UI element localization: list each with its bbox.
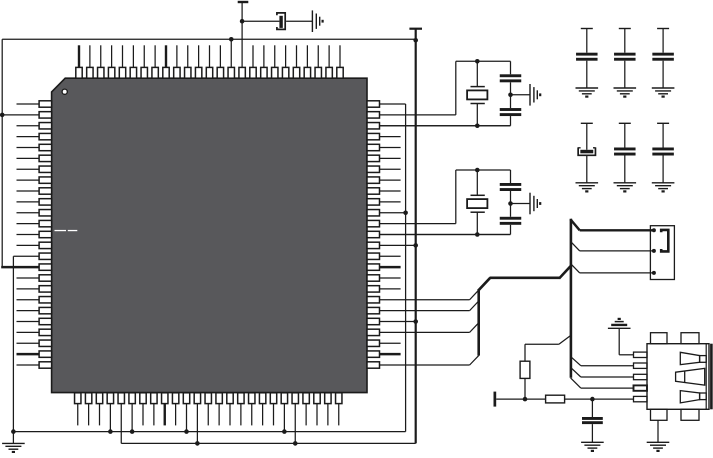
U1 left pins (25) [39,101,52,368]
terminal TP1 (supply tap bar) [494,392,497,407]
X1 mounting tabs bottom [651,409,700,420]
X1 mounting tabs top [651,333,700,344]
wire: GND drop from left pin to bottom rail [12,256,14,431]
wire: bus to USB GND pin [571,378,634,388]
capacitor Q2 load cap bottom [500,204,522,235]
wire: Q1 bottom rail to load caps [379,125,511,127]
ground (rotated) at Q1 caps [530,84,540,106]
SV1 polarity bracket [661,230,668,252]
node: rail1 junction dots [108,429,287,434]
fuse F1 [546,395,565,403]
U1 right pins (25) [367,101,380,368]
U1 label dashes [55,230,78,231]
wire: F1 to USB pin [565,398,634,400]
wire: right vertical (rail1 riser x=405.6) [405,104,407,432]
ground (rotated) at C7 [312,10,322,32]
node: junction dots on right frame [413,38,418,324]
ground at C4 [576,183,599,192]
wire: thick bus diagonal 2 [559,265,571,278]
wire: bus diagonal risers from right pins (thin) [470,290,479,365]
node: Q1 cap midpoint dot [508,93,513,98]
wire: VCAP tap to C7 [242,20,279,22]
U1 top pins (25) [76,67,343,78]
wire: X1 shell to ground [657,420,659,442]
U1 right pin wires [379,104,511,365]
wire: left frame vertical [1,39,3,267]
node: junction dot riser/pin wire [403,210,408,215]
U1 pin-1 index dot [62,89,67,94]
crystal Q1 [467,61,487,125]
X1 body [647,344,713,410]
ground GND1 (bottom left) [2,432,25,452]
polarized capacitor C7 (horizontal) [277,13,285,30]
ground at C8 [581,442,604,451]
wire: Q1 cap midpoint to ground [511,94,531,96]
node: Q2 cap midpoint dot [508,201,513,206]
U1 bottom pin leads [78,403,339,443]
wire: bottom rail 1 (GND) [13,431,405,433]
wire: bus to SV1 pin 2 [571,242,654,251]
wire: R1 top to bus [525,336,570,362]
wire: thick bus horizontal [490,276,560,279]
wire: R1 bottom to VBUS wire [524,378,526,399]
wire: Q2 top rail [456,169,511,171]
capacitor C1 (decoupling) [576,29,598,89]
wire: top VCC bus (net across top) [2,38,416,40]
wire: thick bus diagonal 1 [478,278,490,291]
capacitor Q2 load cap top [500,170,522,204]
wire: chassis ground to USB shield pin [619,328,633,355]
wire: Q2 cap midpoint to ground [511,203,531,205]
node: Q2 bottom junction dot [475,232,480,237]
wire: Q2 bottom rail to load caps [379,234,511,236]
capacitor C3 (decoupling) [652,29,674,89]
capacitor C5 (decoupling) [614,123,636,183]
wire: bus to USB D+ [571,357,634,366]
ground at C5 [614,183,637,192]
wire: right frame vertical (thick) [415,29,417,444]
wire: Q1 left branch [455,61,457,115]
node: junction dot pin lead on VCC bus [229,37,234,68]
U1 left pin stub wires [1,104,39,365]
ground at C2 [614,88,637,97]
power VCC T-bar symbol [238,2,249,68]
wire: thick bus vertical segment 1 [477,290,480,356]
ground at C1 [576,88,599,97]
wire: bold wire bus to SV1 pin 1 [570,219,654,230]
wire: bus to SV1 pin 3 [571,264,654,273]
IC U1 (TQFP-100 microcontroller body) [52,78,367,392]
wire: C7 to ground [286,20,312,22]
X1 symbol trapezoid bottom [680,391,706,403]
capacitor C8 [582,399,603,442]
node: rail2 junction dots [195,441,297,446]
wire: TP1 to F1 [496,398,545,400]
U1 bottom pins (25) [75,393,342,404]
capacitor Q1 load cap top [500,61,522,95]
crystal Q2 [467,170,487,235]
node: Q1 top junction dot [475,59,480,64]
ground (rotated) at Q2 caps [530,193,540,215]
capacitor C2 (decoupling) [614,29,636,89]
resistor R1 (vertical) [520,361,530,378]
ground (chassis, inverted) at USB shield [608,319,631,328]
ground at C6 [652,183,675,192]
power VCC T-bar (right frame) [409,28,422,30]
wire: bottom rail 2 [121,442,415,444]
node: junction dot C8/VBUS [590,397,595,402]
ground at X1 shell [647,442,670,451]
capacitor Q1 load cap bottom [500,95,522,126]
capacitor C6 (decoupling) [652,123,674,183]
X1 symbol trapezoid top [680,352,706,364]
connector SV1 (3-pin header) [650,226,674,280]
node: Q2 top junction dot [475,168,480,173]
node: junction dot bottom-left ground [11,429,16,434]
node: junction dot R1/VBUS [523,397,528,402]
polarized capacitor C4 (decoupling) [578,123,595,183]
U1 top pin leads [79,45,340,68]
wire: Q2 left branch [455,170,457,224]
SV1 pin contacts [652,228,656,275]
node: junction dot VCAP tap [240,19,245,24]
node: Q1 bottom junction dot [475,123,480,128]
X1 symbol trapezoid middle [676,368,705,385]
node: junction dot left frame / pin wire [0,113,5,118]
ground at C3 [652,88,675,97]
wire: Q1 top rail [456,60,511,62]
connector X1 (USB receptacle) pins [634,352,648,402]
wire: thick bus vertical segment 2 [570,219,573,378]
wire: bus to USB D- [571,368,634,377]
